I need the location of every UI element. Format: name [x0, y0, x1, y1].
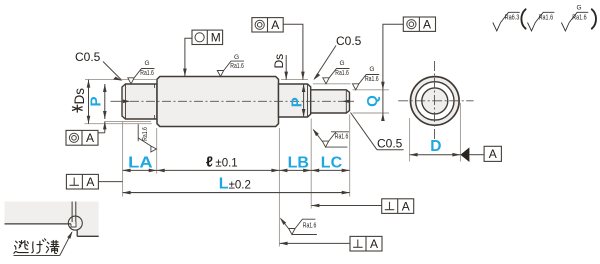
roughness symbol S4 on Q-top extension: [353, 66, 380, 90]
extension line Q top: [353, 89, 390, 91]
extension line stub bottom right: [105, 120, 151, 122]
svg-text:Ra1.6: Ra1.6: [365, 74, 379, 83]
roughness symbol S5 rotated on big cyl left face ext: [138, 124, 156, 152]
svg-text:A: A: [402, 200, 410, 214]
svg-text:G: G: [234, 54, 239, 61]
svg-text:D: D: [430, 138, 441, 155]
dimension *Ds (left, big cylinder dia): [72, 80, 90, 124]
chamfer callout C0.5 bottom (Q end): [351, 113, 404, 151]
dimension row L: [123, 191, 350, 195]
extension line top-left (big cyl top corner): [85, 79, 156, 81]
label Ds (top, with down arrow): [272, 54, 288, 80]
svg-text:Ra6.3: Ra6.3: [505, 13, 520, 22]
svg-text:Ra1.6: Ra1.6: [572, 13, 587, 22]
dimension row LA / l / LB / LC: [123, 169, 350, 173]
D dimension extension lines: [409, 118, 411, 162]
svg-text:A: A: [489, 147, 497, 161]
svg-text:A: A: [86, 175, 94, 189]
chamfer callout C0.5 top-left: [75, 50, 123, 81]
svg-text:G: G: [340, 60, 345, 67]
relief groove detail view body: [5, 202, 99, 237]
svg-text:L±0.2: L±0.2: [219, 176, 251, 193]
svg-text:Ra1.6: Ra1.6: [140, 68, 154, 77]
datum A flag on end view: [460, 146, 501, 162]
centerline arrow left (into left face): [123, 100, 131, 104]
svg-text:Ds: Ds: [272, 54, 286, 69]
shaft right P section: [279, 84, 311, 117]
chamfer callout C0.5 top-middle: [313, 34, 361, 81]
svg-text:Q: Q: [364, 95, 381, 107]
shaft large cylinder (Ds dia): [157, 77, 279, 127]
datum frame (perpendicularity to A) left with leader: [66, 174, 122, 189]
roughness symbol S1 on left stub top: [128, 60, 155, 84]
extension line bottom-left (big cyl bottom corner): [85, 123, 152, 125]
svg-text:Ra1.6: Ra1.6: [335, 132, 349, 141]
svg-text:Ra1.6: Ra1.6: [303, 220, 317, 229]
extension line top-right of big cylinder: [281, 79, 308, 81]
svg-text:Ra1.6: Ra1.6: [140, 127, 149, 141]
datum frame (perpendicularity to A) right upper with leader: [311, 199, 413, 214]
svg-text:C0.5: C0.5: [75, 50, 101, 64]
end view crosshair: [398, 61, 473, 142]
centerline arrow right (into right face): [342, 100, 350, 104]
note Ra1.6 plain: [528, 12, 555, 31]
svg-text:G: G: [577, 5, 582, 12]
svg-text:Ds: Ds: [72, 88, 87, 105]
end view outer circle: [411, 77, 460, 126]
surface finish note top-right: Ra6.3: [493, 12, 520, 31]
roughness symbol S3 on P-top extension: [323, 60, 350, 84]
svg-text:A: A: [423, 18, 431, 32]
end view middle circle: [416, 82, 454, 120]
extension line Q bottom: [353, 112, 390, 114]
svg-text:M: M: [211, 31, 221, 45]
note open paren: [521, 9, 525, 28]
extension line vertical at P section right face: [310, 119, 312, 209]
svg-text:Ra1.6: Ra1.6: [539, 13, 554, 22]
note close paren: [592, 9, 596, 28]
datum target frame (circle M) with leader: [183, 30, 223, 76]
roughness symbol S7 with leader to big cyl right face ext: [280, 218, 317, 235]
svg-text:P: P: [289, 97, 306, 107]
dimension P (left stub dia): [88, 84, 107, 119]
relief groove circle: [68, 216, 82, 230]
datum frame (perpendicularity to A) right lower with leader: [280, 236, 382, 251]
dimension Q (right stub dia): [364, 90, 385, 121]
extension line vertical at big cyl right face: [278, 128, 280, 247]
shaft centerline: [111, 100, 355, 102]
label nigashi-mizo (escape groove) kanji drawn as paths: [14, 239, 59, 254]
dimension P (right section dia): [289, 84, 306, 117]
svg-text:P: P: [88, 96, 105, 106]
relief groove label leader: [14, 232, 72, 255]
svg-text:LC: LC: [321, 155, 343, 172]
extension line P-top continued right: [313, 83, 351, 85]
svg-text:ℓ ±0.1: ℓ ±0.1: [206, 155, 238, 171]
svg-text:C0.5: C0.5: [377, 137, 403, 151]
end view inner circle: [422, 88, 448, 114]
extension line vertical at stub left face: [122, 121, 124, 197]
extension line vertical at Q right face: [349, 115, 351, 197]
shaft left stub section (P dia): [122, 84, 157, 119]
shaft right Q stub: [311, 90, 350, 113]
extension line vertical at big cyl left face: [156, 128, 158, 174]
svg-text:A: A: [370, 237, 378, 251]
svg-text:LA: LA: [128, 155, 153, 172]
svg-text:G: G: [369, 66, 374, 73]
roughness symbol S2 on big cylinder top: [217, 54, 244, 76]
datum frame (concentricity to A) top-right with leader: [381, 17, 435, 90]
svg-text:Ra1.6: Ra1.6: [335, 68, 349, 77]
dimension D: [410, 138, 461, 157]
svg-text:LB: LB: [288, 155, 309, 172]
svg-text:A: A: [271, 18, 279, 32]
note Ra1.6 with G: [561, 5, 588, 31]
datum frame (concentricity to A) top-center with leader: [252, 18, 305, 80]
relief groove tick marks at left stub junction: [154, 84, 156, 119]
svg-text:G: G: [145, 60, 150, 67]
roughness symbol S6 with leader to P/Q step: [313, 129, 349, 148]
svg-text:C0.5: C0.5: [336, 34, 362, 48]
svg-text:Ra1.6: Ra1.6: [230, 61, 244, 70]
datum frame (concentricity to A) left with leader: [66, 121, 107, 145]
svg-text:A: A: [86, 131, 94, 145]
